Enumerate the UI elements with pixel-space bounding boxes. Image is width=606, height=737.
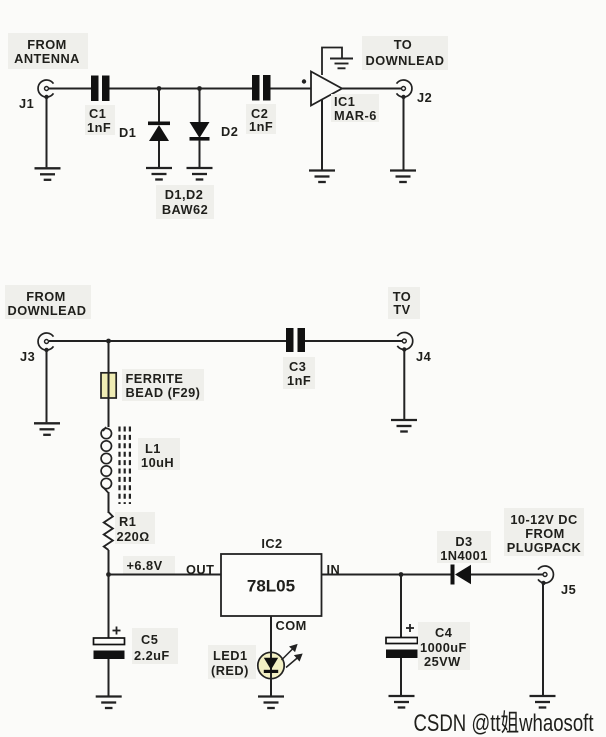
svg-text:D1,D2: D1,D2 (165, 187, 204, 202)
diode D2 (190, 89, 210, 168)
LED LED1 (258, 652, 284, 678)
svg-text:J3: J3 (20, 349, 35, 364)
svg-text:LED1: LED1 (213, 648, 248, 663)
connector J3 (38, 333, 53, 350)
svg-text:BAW62: BAW62 (162, 202, 208, 217)
amplifier IC1 (311, 72, 342, 106)
label D1,D2 BAW62 (156, 185, 214, 219)
wire J3 to ground (46, 350, 48, 422)
wire J1 to ground (46, 97, 48, 167)
node C4 junction (399, 572, 404, 577)
wire junction to ferrite bead (108, 341, 110, 427)
label 10-12V DC FROM PLUGPACK (504, 508, 584, 556)
label IC1 MAR-6 (331, 94, 379, 123)
node ferrite junction (106, 339, 111, 344)
connector J4 (397, 333, 412, 350)
ground C5 (96, 697, 122, 709)
regulator IC2 (221, 554, 322, 616)
wire J1 to C1 (49, 88, 91, 90)
node D1 junction (157, 86, 162, 91)
svg-text:COM: COM (276, 618, 307, 633)
svg-text:R1: R1 (119, 514, 136, 529)
label LED1 (RED) (208, 645, 256, 679)
label C3 1nF (283, 357, 315, 389)
svg-text:C3: C3 (289, 359, 306, 374)
svg-text:2.2uF: 2.2uF (134, 648, 170, 663)
svg-text:10-12V DC: 10-12V DC (510, 512, 577, 527)
svg-text:D1: D1 (119, 125, 136, 140)
svg-text:25VW: 25VW (424, 654, 461, 669)
diode D1 (148, 89, 170, 168)
svg-text:IC1: IC1 (334, 94, 355, 109)
svg-text:DOWNLEAD: DOWNLEAD (366, 53, 445, 68)
svg-text:PLUGPACK: PLUGPACK (507, 540, 582, 555)
wire node to IC2 OUT (109, 574, 222, 576)
label C5 plus (113, 627, 121, 635)
ground C4 (389, 696, 415, 708)
wire C4 to ground (400, 658, 402, 695)
inductor L1 (101, 427, 111, 493)
svg-text:FERRITE: FERRITE (126, 371, 184, 386)
svg-text:1nF: 1nF (287, 373, 311, 388)
svg-text:ANTENNA: ANTENNA (14, 51, 80, 66)
capacitor C3 (286, 328, 305, 352)
svg-text:1nF: 1nF (87, 120, 111, 135)
inductor L1 core (120, 427, 130, 505)
svg-text:CSDN @tt姐whaosoft: CSDN @tt姐whaosoft (414, 709, 594, 737)
svg-text:BEAD (F29): BEAD (F29) (126, 385, 201, 400)
connector J5 (538, 566, 553, 583)
svg-text:L1: L1 (145, 441, 161, 456)
node +6.8V (106, 572, 111, 577)
wire IC1 bottom to ground (321, 100, 323, 170)
wire junction to C4 (400, 575, 402, 639)
wire J2 to ground (403, 97, 405, 170)
capacitor C4 (386, 638, 418, 659)
ground LED1 (258, 697, 284, 709)
ground J3 (34, 423, 60, 435)
wire C2 to IC1 (271, 88, 312, 90)
svg-text:+6.8V: +6.8V (127, 558, 163, 573)
svg-text:C4: C4 (435, 625, 453, 640)
label C2 1nF (246, 104, 276, 134)
wire C5 to ground (108, 659, 110, 696)
ground J5 (530, 696, 556, 708)
svg-text:IC2: IC2 (261, 536, 282, 551)
svg-text:FROM: FROM (525, 526, 564, 541)
label L1 10uH (138, 438, 180, 470)
label +6.8V (123, 556, 175, 574)
connector J1 (38, 80, 53, 97)
ground J1 (35, 168, 61, 180)
label FERRITE BEAD (F29) (122, 369, 204, 401)
node J2 shell (401, 95, 405, 99)
label FROM DOWNLEAD (5, 285, 91, 319)
ground D1 (146, 168, 172, 180)
wire J4 to ground (403, 350, 405, 420)
node J4 shell (402, 347, 406, 351)
label C4 1000uF 25VW (418, 622, 470, 670)
svg-text:1nF: 1nF (249, 119, 273, 134)
wire R1 to node (108, 550, 110, 575)
svg-text:78L05: 78L05 (247, 577, 295, 596)
ground D2 (187, 168, 213, 180)
ground IC1 top (330, 59, 353, 69)
label TO DOWNLEAD (362, 36, 448, 70)
svg-text:C5: C5 (141, 632, 158, 647)
svg-text:J5: J5 (561, 582, 576, 597)
wire C3 to J4 (305, 340, 404, 342)
svg-text:J1: J1 (19, 96, 34, 111)
label C5 2.2uF (132, 628, 178, 664)
svg-text:DOWNLEAD: DOWNLEAD (8, 303, 87, 318)
svg-text:220Ω: 220Ω (117, 529, 150, 544)
ground IC1 bottom (309, 171, 335, 183)
capacitor C5 (94, 638, 125, 659)
node J5 shell (541, 581, 545, 585)
node J1 shell (44, 95, 48, 99)
svg-text:D3: D3 (455, 534, 472, 549)
connector J2 (397, 80, 412, 97)
svg-text:MAR-6: MAR-6 (334, 108, 377, 123)
svg-text:1N4001: 1N4001 (440, 548, 488, 563)
wire IC2 IN to D3 (322, 574, 451, 576)
label TO TV (388, 287, 420, 319)
capacitor C1 (91, 76, 110, 102)
diode D3 (451, 565, 472, 585)
ground J2 (390, 171, 416, 183)
node J3 shell (44, 348, 48, 352)
wire C1 to C2 (110, 88, 253, 90)
svg-text:TO: TO (394, 37, 412, 52)
svg-text:D2: D2 (221, 124, 238, 139)
label R1 220ohm (115, 512, 155, 544)
svg-text:1000uF: 1000uF (420, 640, 467, 655)
wire IC1 to J2 (342, 88, 404, 90)
wire L1 to R1 (108, 492, 110, 513)
node D2 junction (197, 86, 202, 91)
ferrite bead F29 (101, 373, 116, 398)
LED1 arrows (282, 645, 302, 668)
wire J3 to C3 (49, 340, 286, 342)
label FROM ANTENNA (8, 33, 88, 69)
label C1 1nF (85, 105, 115, 135)
svg-text:J2: J2 (417, 90, 432, 105)
label D3 1N4001 (437, 531, 491, 563)
svg-text:10uH: 10uH (141, 455, 174, 470)
wire D3 to J5 (471, 574, 545, 576)
label C4 plus (406, 624, 414, 632)
capacitor C2 (252, 75, 271, 101)
svg-text:(RED): (RED) (211, 663, 249, 678)
svg-text:FROM: FROM (26, 289, 65, 304)
pin 1 dot of IC1 (302, 79, 306, 83)
wire IC2 COM to LED1 (270, 616, 272, 696)
ground J4 (391, 420, 417, 432)
wire node to C5 (108, 575, 110, 639)
svg-text:TV: TV (393, 302, 410, 317)
svg-text:J4: J4 (416, 349, 432, 364)
svg-text:C1: C1 (89, 106, 106, 121)
resistor R1 (104, 512, 113, 550)
wire IC1 top to ground (322, 48, 342, 76)
wire J5 to ground (542, 583, 544, 695)
svg-text:OUT: OUT (186, 562, 214, 577)
svg-text:FROM: FROM (27, 37, 66, 52)
